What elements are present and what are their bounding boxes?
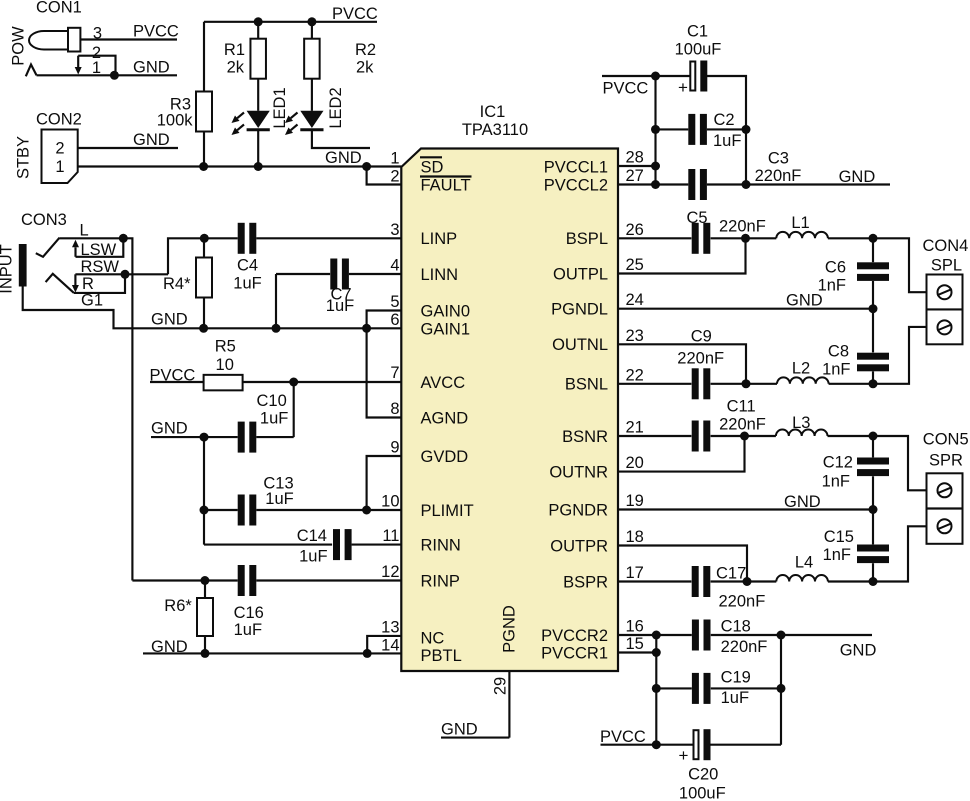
wire GND column mid xyxy=(203,437,205,544)
svg-text:BSNL: BSNL xyxy=(565,376,608,394)
junction C7 GND xyxy=(272,324,281,333)
wire RSW row xyxy=(75,273,168,275)
svg-text:4: 4 xyxy=(390,257,399,275)
wire C10 to leg xyxy=(256,436,293,438)
SD overline xyxy=(420,156,442,158)
wire pin19 GND xyxy=(618,508,873,510)
wire pin20 jog xyxy=(618,436,745,472)
wire C20 right xyxy=(710,744,781,746)
svg-text:14: 14 xyxy=(381,637,399,655)
wire CON2 pin1 / SD net xyxy=(78,165,402,167)
wire CON1 pin3 to PVCC xyxy=(80,38,177,40)
wire R1 to LED1 xyxy=(257,79,259,111)
svg-text:+: + xyxy=(678,78,688,97)
svg-text:220nF: 220nF xyxy=(719,218,766,236)
svg-text:2: 2 xyxy=(55,140,64,158)
CON5 screw terminal 2 xyxy=(938,519,952,533)
svg-text:CON2: CON2 xyxy=(36,111,82,129)
capacitor C14 xyxy=(333,529,340,560)
wire pin5 jog xyxy=(367,311,402,418)
svg-text:LINP: LINP xyxy=(421,230,458,248)
wire CON4 bottom leg xyxy=(873,327,927,384)
svg-text:16: 16 xyxy=(626,618,644,636)
svg-text:C5: C5 xyxy=(686,209,707,227)
CON3 jack body bar xyxy=(19,244,27,287)
CON4 screw terminal 2 xyxy=(938,320,952,334)
svg-text:1uF: 1uF xyxy=(233,275,261,293)
svg-text:C6: C6 xyxy=(825,259,846,277)
wire pin23 jog xyxy=(618,344,746,384)
svg-text:CON1: CON1 xyxy=(36,0,82,17)
capacitor C4 xyxy=(238,223,245,254)
svg-text:GVDD: GVDD xyxy=(421,448,469,466)
wire GND to C10 xyxy=(151,436,238,438)
svg-text:L2: L2 xyxy=(792,360,810,378)
junction NC/PBTL xyxy=(363,649,372,658)
wire pin9 jog xyxy=(367,456,402,510)
wire C10 leg xyxy=(293,382,295,437)
svg-text:PLIMIT: PLIMIT xyxy=(421,502,474,520)
svg-text:C18: C18 xyxy=(721,618,751,636)
junction CON1 pin1/pin2 xyxy=(110,71,119,80)
wire LED1 cathode xyxy=(257,131,259,167)
svg-text:C15: C15 xyxy=(824,528,854,546)
wire R2 top xyxy=(311,22,313,39)
wire C18 to GND xyxy=(711,634,872,636)
svg-text:C2: C2 xyxy=(714,111,735,129)
LED2 light arrows xyxy=(291,113,298,119)
wire CON1 pin2 switch frame xyxy=(78,56,115,76)
svg-text:10: 10 xyxy=(381,493,399,511)
capacitor C7 xyxy=(330,259,337,290)
svg-text:R2: R2 xyxy=(355,41,376,59)
svg-text:C11: C11 xyxy=(727,398,756,416)
wire R6 bottom xyxy=(204,636,206,653)
svg-text:C1: C1 xyxy=(687,23,708,41)
junction PVCC/C1 xyxy=(651,72,660,81)
wire pin15 xyxy=(618,651,656,653)
junction C9/L2 xyxy=(742,379,751,388)
svg-text:2: 2 xyxy=(390,168,399,186)
svg-text:1nF: 1nF xyxy=(823,546,851,564)
junction pin16 xyxy=(652,631,661,640)
capacitor C10 xyxy=(238,422,245,453)
svg-text:OUTPL: OUTPL xyxy=(553,265,608,283)
wire CON2 pin2 to GND xyxy=(78,147,178,149)
svg-text:22: 22 xyxy=(626,367,644,385)
wire C7 row to pin4 xyxy=(276,273,330,275)
svg-text:PVCC: PVCC xyxy=(332,5,378,23)
svg-text:GND: GND xyxy=(325,149,362,167)
svg-text:LSW: LSW xyxy=(81,241,117,259)
wire C7 ground leg xyxy=(275,274,277,328)
wire pin27 / C3 row xyxy=(618,183,688,185)
LED LED1 xyxy=(247,111,270,128)
svg-text:GND: GND xyxy=(784,493,821,511)
svg-text:L3: L3 xyxy=(792,414,810,432)
svg-text:21: 21 xyxy=(626,419,644,437)
capacitor C17 xyxy=(692,566,699,597)
svg-text:R4*: R4* xyxy=(163,275,191,293)
junction R2 top xyxy=(307,17,316,26)
junction C11/L3 xyxy=(740,432,749,441)
junction C17/L4 xyxy=(743,577,752,586)
svg-text:C3: C3 xyxy=(768,150,789,168)
svg-text:6: 6 xyxy=(390,311,399,329)
junction C2 left xyxy=(651,125,660,134)
wire CON1 pin1 to GND xyxy=(37,74,178,76)
junction pin28 xyxy=(651,162,660,171)
inductor L4 xyxy=(776,575,828,581)
svg-text:L1: L1 xyxy=(791,214,809,232)
svg-text:C10: C10 xyxy=(257,392,287,410)
CON1 switch arrow xyxy=(77,56,79,67)
svg-text:GND: GND xyxy=(151,311,188,329)
junction C12/C15 GND xyxy=(869,505,878,514)
wire C1 right xyxy=(707,76,746,185)
wire C12 column xyxy=(872,436,874,457)
svg-text:PVCCR2: PVCCR2 xyxy=(541,627,608,645)
svg-text:AGND: AGND xyxy=(421,409,469,427)
junction PVCC/C20 xyxy=(652,740,661,749)
wire pin29 PGND xyxy=(508,671,510,738)
svg-text:BSPR: BSPR xyxy=(563,573,608,591)
svg-text:TPA3110: TPA3110 xyxy=(462,121,528,139)
svg-text:BSPL: BSPL xyxy=(566,230,608,248)
wire PVCC column xyxy=(654,76,656,185)
svg-text:NC: NC xyxy=(421,629,445,647)
svg-text:SPR: SPR xyxy=(929,452,963,470)
svg-text:OUTNR: OUTNR xyxy=(549,463,608,481)
junction R1 top xyxy=(254,17,263,26)
svg-text:17: 17 xyxy=(626,564,644,582)
capacitor C9 xyxy=(692,368,699,399)
svg-text:C19: C19 xyxy=(721,669,751,687)
svg-text:POW: POW xyxy=(10,26,28,66)
svg-text:8: 8 xyxy=(390,400,399,418)
svg-text:12: 12 xyxy=(381,563,399,581)
junction PLIMIT/GVDD xyxy=(362,506,371,515)
wire junction to R4 xyxy=(203,238,205,257)
svg-text:PVCCR1: PVCCR1 xyxy=(541,644,608,662)
svg-text:C14: C14 xyxy=(297,527,327,545)
wire PVCC to R5 xyxy=(150,381,204,383)
svg-text:C4: C4 xyxy=(237,257,258,275)
wire L1 to CON4 xyxy=(828,238,927,292)
svg-text:220nF: 220nF xyxy=(677,350,724,368)
wire R5 to pin7 xyxy=(243,381,402,383)
wire pin26 to C5 xyxy=(618,237,691,239)
wire R loop xyxy=(74,274,125,293)
wire C15 to L4 node xyxy=(872,563,874,581)
wire R4 to GND xyxy=(203,298,205,329)
svg-text:2k: 2k xyxy=(227,59,245,77)
wire C8 to L2 node xyxy=(872,371,874,383)
svg-text:OUTNL: OUTNL xyxy=(552,336,608,354)
junction R6 GND xyxy=(201,649,210,658)
wire to C14 row xyxy=(204,544,332,546)
capacitor C15 xyxy=(857,545,889,552)
svg-text:AVCC: AVCC xyxy=(421,374,466,392)
svg-text:PGNDR: PGNDR xyxy=(548,501,608,519)
svg-text:RINP: RINP xyxy=(421,572,460,590)
svg-text:PVCCL2: PVCCL2 xyxy=(544,176,608,194)
svg-text:LED2: LED2 xyxy=(327,87,345,128)
wire L4 out xyxy=(828,580,873,582)
svg-text:220nF: 220nF xyxy=(755,167,802,185)
CON3 ring contact R xyxy=(46,274,74,293)
capacitor C18 xyxy=(692,620,699,651)
svg-text:20: 20 xyxy=(626,454,644,472)
capacitor C11 xyxy=(692,421,699,452)
svg-text:1nF: 1nF xyxy=(822,473,850,491)
junction C2 right xyxy=(742,125,751,134)
CON3 RSW arrow xyxy=(74,274,76,285)
junction C18 right xyxy=(777,631,786,640)
wire pin25 jog xyxy=(618,238,746,273)
svg-text:3: 3 xyxy=(390,221,399,239)
svg-text:28: 28 xyxy=(626,149,644,167)
svg-text:CON3: CON3 xyxy=(21,211,67,229)
svg-text:R: R xyxy=(82,275,94,293)
svg-text:PBTL: PBTL xyxy=(421,647,462,665)
wire C19 row xyxy=(656,687,692,689)
svg-text:C20: C20 xyxy=(688,766,718,784)
inductor L2 xyxy=(777,377,829,383)
svg-text:11: 11 xyxy=(382,527,399,545)
svg-text:19: 19 xyxy=(626,492,644,510)
svg-text:1: 1 xyxy=(390,150,399,168)
wire pin16 to C18 xyxy=(618,634,692,636)
inductor L1 xyxy=(776,232,828,238)
svg-text:RINN: RINN xyxy=(421,536,461,554)
CON3 LSW arrow xyxy=(74,247,76,256)
CON4 screw terminal 1 xyxy=(938,285,952,299)
wire C14 to pin11 xyxy=(352,544,402,546)
wire RINP row xyxy=(132,579,237,581)
junction C5/L1 xyxy=(741,234,750,243)
svg-text:GND: GND xyxy=(839,168,876,186)
inductor L3 xyxy=(776,430,828,436)
svg-text:GND: GND xyxy=(133,59,170,77)
wire LED2 cathode to GND stub xyxy=(312,131,370,148)
svg-text:PVCCL1: PVCCL1 xyxy=(544,158,608,176)
svg-text:18: 18 xyxy=(626,528,644,546)
junction C3 left xyxy=(651,180,660,189)
svg-text:C9: C9 xyxy=(691,328,712,346)
wire R6 top xyxy=(204,581,206,599)
wire C16 to pin12 xyxy=(256,579,401,581)
wire G1 to GND row xyxy=(23,287,402,329)
svg-text:27: 27 xyxy=(626,167,644,185)
junction pin15 xyxy=(652,648,661,657)
resistor R6 xyxy=(197,598,213,636)
svg-text:R6*: R6* xyxy=(164,597,192,615)
svg-text:STBY: STBY xyxy=(15,136,33,179)
wire pin13 jog xyxy=(367,636,401,654)
connector CON2 body xyxy=(42,130,78,184)
svg-text:SD: SD xyxy=(421,158,444,176)
wire R3 bottom xyxy=(203,132,205,167)
svg-text:100k: 100k xyxy=(157,112,194,130)
resistor R3 xyxy=(196,92,212,132)
capacitor C6 xyxy=(857,262,889,269)
capacitor C5 xyxy=(692,223,699,254)
svg-text:R5: R5 xyxy=(215,338,236,356)
svg-text:PVCC: PVCC xyxy=(600,728,646,746)
capacitor C2 xyxy=(688,114,695,145)
svg-text:220nF: 220nF xyxy=(719,416,766,434)
wire pin22 to C9 xyxy=(618,383,691,385)
wire PVCC column bottom xyxy=(655,635,657,745)
capacitor C1 (polarized) xyxy=(690,62,695,91)
svg-text:FAULT: FAULT xyxy=(421,176,471,194)
svg-text:1uF: 1uF xyxy=(260,410,288,428)
svg-text:23: 23 xyxy=(626,327,644,345)
wire pin24 GND xyxy=(618,308,873,310)
wire L3 to CON5 xyxy=(828,436,927,490)
junction C4/R4 xyxy=(200,234,209,243)
svg-text:PGND: PGND xyxy=(501,605,519,653)
junction GAIN/GND xyxy=(362,324,371,333)
svg-text:2k: 2k xyxy=(356,59,374,77)
wire C1 left xyxy=(656,75,690,77)
LED1 light arrows xyxy=(237,113,244,119)
wire pin18 jog xyxy=(618,546,747,582)
svg-text:INPUT: INPUT xyxy=(0,244,16,294)
svg-text:25: 25 xyxy=(626,256,644,274)
junction R3/SD net xyxy=(199,162,208,171)
capacitor C8 xyxy=(857,353,889,360)
svg-text:15: 15 xyxy=(626,635,644,653)
capacitor C3 xyxy=(688,169,695,200)
svg-text:L4: L4 xyxy=(795,554,813,572)
capacitor C19 xyxy=(692,673,699,704)
svg-text:24: 24 xyxy=(626,291,644,309)
connector CON1 DC jack barrel xyxy=(29,31,68,50)
wire C9 to L2 xyxy=(711,383,777,385)
svg-text:100uF: 100uF xyxy=(679,785,726,801)
wire R3 top xyxy=(203,22,205,92)
svg-text:13: 13 xyxy=(381,619,399,637)
wire C5 to L1 xyxy=(711,237,777,239)
svg-text:1nF: 1nF xyxy=(818,277,846,295)
svg-text:29: 29 xyxy=(492,677,510,695)
svg-text:GND: GND xyxy=(151,420,188,438)
svg-text:9: 9 xyxy=(390,439,399,457)
LED LED2 xyxy=(300,111,323,128)
junction R4 GND xyxy=(199,324,208,333)
junction L4 out xyxy=(869,577,878,586)
junction LED1/SD net xyxy=(254,162,263,171)
CON3 tip contact L xyxy=(36,238,60,257)
FAULT overline xyxy=(420,175,472,177)
resistor R2 xyxy=(304,39,320,79)
svg-text:1uF: 1uF xyxy=(721,689,749,707)
svg-text:CON4: CON4 xyxy=(923,237,969,255)
junction C3 right xyxy=(742,180,751,189)
svg-text:SPL: SPL xyxy=(931,257,962,275)
svg-text:G1: G1 xyxy=(81,292,103,310)
svg-text:10: 10 xyxy=(216,356,234,374)
svg-text:100uF: 100uF xyxy=(675,41,722,59)
svg-text:GND: GND xyxy=(840,642,877,660)
junction C13 left xyxy=(200,506,209,515)
svg-text:C8: C8 xyxy=(828,343,849,361)
junction R6/C16 xyxy=(200,576,209,585)
wire R2 to LED2 xyxy=(311,79,313,111)
wire C4 to pin3 xyxy=(256,237,401,239)
svg-text:1uF: 1uF xyxy=(299,548,327,566)
svg-text:OUTPR: OUTPR xyxy=(550,537,608,555)
svg-text:L: L xyxy=(80,222,89,240)
resistor R4 xyxy=(196,258,212,298)
wire pin21 to C11 xyxy=(618,435,691,437)
capacitor C16 xyxy=(238,565,245,596)
svg-text:C17: C17 xyxy=(716,565,746,583)
svg-text:1uF: 1uF xyxy=(265,490,293,508)
wire C13 row xyxy=(204,509,238,511)
wire bottom GND row xyxy=(143,652,401,654)
svg-text:GND: GND xyxy=(441,721,478,739)
svg-text:7: 7 xyxy=(390,364,399,382)
wire C17 to L4 xyxy=(711,580,777,582)
capacitor C13 xyxy=(238,495,245,526)
wire to pin2 FAULT xyxy=(367,167,402,185)
svg-text:LINN: LINN xyxy=(421,266,459,284)
junction L2 out xyxy=(869,379,878,388)
wire L to RINP column xyxy=(60,238,133,580)
wire PVCC bottom xyxy=(601,744,657,746)
junction L1 out xyxy=(869,234,878,243)
connector CON4 body xyxy=(927,275,963,345)
wire LSW loop xyxy=(76,238,124,256)
wire PVCC rail xyxy=(204,21,377,23)
svg-text:1uF: 1uF xyxy=(234,621,262,639)
svg-text:GAIN0: GAIN0 xyxy=(421,302,471,320)
svg-text:BSNR: BSNR xyxy=(562,428,608,446)
svg-text:PVCC: PVCC xyxy=(603,80,649,98)
svg-text:+: + xyxy=(679,746,689,765)
svg-text:220nF: 220nF xyxy=(721,638,768,656)
junction RSW xyxy=(121,270,130,279)
wire CON5 bottom leg xyxy=(873,526,927,581)
junction L3 out xyxy=(869,432,878,441)
junction C10 GND xyxy=(200,433,209,442)
wire pin29 GND stub xyxy=(441,737,509,739)
wire right column bottom xyxy=(780,635,782,745)
wire C2 row xyxy=(656,128,689,130)
junction C6/C8 GND xyxy=(869,304,878,313)
svg-text:1nF: 1nF xyxy=(822,361,850,379)
wire pin28 xyxy=(618,165,656,167)
op-amp IC1 TPA3110 body xyxy=(401,149,618,672)
svg-text:PVCC: PVCC xyxy=(133,23,179,41)
resistor R5 xyxy=(204,375,243,391)
wire L2 out xyxy=(829,383,873,385)
junction C19 right xyxy=(777,684,786,693)
svg-text:5: 5 xyxy=(390,293,399,311)
svg-text:IC1: IC1 xyxy=(480,103,506,121)
wire C6 column xyxy=(872,238,874,262)
svg-text:1uF: 1uF xyxy=(326,297,354,315)
svg-text:1uF: 1uF xyxy=(713,132,741,150)
wire PVCC right xyxy=(602,75,656,77)
capacitor C12 xyxy=(857,458,889,465)
connector CON5 body xyxy=(927,473,963,544)
svg-text:C12: C12 xyxy=(823,454,853,472)
capacitor C20 (polarized) xyxy=(694,730,699,759)
